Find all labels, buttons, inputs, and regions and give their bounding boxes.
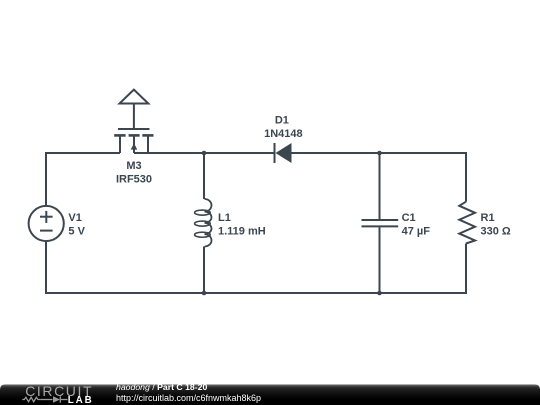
- svg-text:330 Ω: 330 Ω: [481, 225, 511, 237]
- svg-text:1N4148: 1N4148: [264, 128, 303, 140]
- svg-text:IRF530: IRF530: [116, 174, 152, 186]
- svg-text:R1: R1: [481, 212, 495, 224]
- svg-text:47 µF: 47 µF: [402, 225, 431, 237]
- svg-text:V1: V1: [68, 212, 81, 224]
- svg-text:5 V: 5 V: [68, 225, 85, 237]
- svg-text:1.119 mH: 1.119 mH: [218, 225, 266, 237]
- svg-text:http://circuitlab.com/c6fnwmka: http://circuitlab.com/c6fnwmkah8k6p: [116, 393, 261, 403]
- svg-text:D1: D1: [275, 115, 289, 127]
- svg-text:LAB: LAB: [68, 395, 94, 405]
- svg-text:M3: M3: [126, 160, 141, 172]
- svg-text:haodong / Part C 18-20: haodong / Part C 18-20: [116, 382, 207, 392]
- svg-text:C1: C1: [402, 212, 416, 224]
- svg-text:L1: L1: [218, 212, 231, 224]
